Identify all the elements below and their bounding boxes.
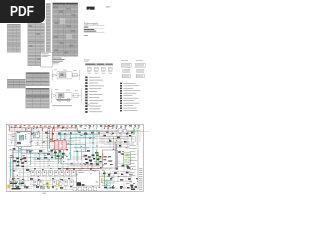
- subtitle: Mini Hydraulic Excavator: [84, 28, 95, 31]
- ground bus segments bottom left: [10, 183, 28, 190]
- dark cluster centre components: [51, 149, 65, 158]
- fuse panel white box bottom: [76, 171, 99, 186]
- title rule 3: [84, 31, 105, 33]
- grey trunk bus left: [12, 148, 13, 190]
- small box upper notes area: [131, 136, 135, 142]
- wiring code table (wide, dark header): [53, 3, 78, 57]
- small connector boxes under fuse panel: [73, 187, 97, 190]
- harness table H: [26, 88, 49, 109]
- CAT logo: [87, 7, 95, 10]
- dark cluster centre right: [84, 154, 95, 164]
- scanned parts table column B: [28, 23, 45, 66]
- connector table E: [7, 79, 25, 88]
- teal wires bottom right: [102, 179, 115, 190]
- green harness wires left: [48, 130, 52, 152]
- scattered wire number labels: [10, 131, 133, 189]
- connector block J2: [33, 132, 39, 137]
- right quadrant wiring details: [102, 130, 132, 149]
- dark cluster left column: [16, 157, 26, 167]
- ECU red edge: [102, 153, 104, 160]
- yellow connector bottom right: [101, 179, 103, 184]
- teal signal wires left: [11, 147, 24, 184]
- bottom right corner components: [130, 185, 137, 190]
- svg-text:Schematic: Schematic: [84, 21, 99, 25]
- magenta label bottom centre: [85, 173, 90, 176]
- red feed wire segment 2: [50, 128, 56, 141]
- relay box K1 with teal connector: [16, 132, 31, 147]
- dark cluster beside ECU: [96, 155, 101, 165]
- small relay boxes top right: [118, 129, 126, 133]
- teal bus upper centre: [58, 131, 100, 160]
- title rule 1: [84, 24, 105, 26]
- scattered small components: [12, 132, 138, 189]
- teal connector bottom left: [40, 186, 50, 189]
- red drop from pink block: [55, 150, 62, 159]
- side view callouts: [55, 89, 78, 90]
- legend rows (right column): [120, 83, 140, 112]
- stray mark right of caption: [87, 104, 90, 107]
- spec box text: [42, 54, 51, 57]
- fine print under wiring table: [53, 58, 65, 62]
- magenta mark left mid: [22, 155, 24, 156]
- wire mesh horizontal runs: [8, 130, 150, 191]
- machine plan view illustration: [52, 70, 80, 81]
- teal marks bottom right corner: [130, 181, 135, 184]
- machine side view illustration: [52, 88, 82, 103]
- green wires centre: [59, 149, 61, 164]
- pink connector block: [54, 141, 66, 150]
- plan view callouts: [54, 70, 77, 71]
- caption under side view: [52, 104, 72, 107]
- white spec box over tables: [41, 52, 53, 67]
- schematic frame: [6, 124, 143, 191]
- symbol chart row: [88, 67, 113, 70]
- connector chart labels: [121, 59, 143, 62]
- harness table G: [26, 72, 49, 86]
- teal cluster centre: [50, 149, 67, 158]
- wire over fuse area: [70, 164, 100, 166]
- connector chart drawings: [122, 63, 146, 78]
- magenta label centre: [84, 164, 86, 165]
- notes column text rows: [129, 145, 137, 176]
- sheet number below frame: [43, 192, 46, 195]
- PDF badge: [0, 0, 45, 23]
- notes column divider: [137, 130, 139, 190]
- bottom right component cluster: [103, 172, 129, 189]
- small comps right mid: [118, 151, 123, 155]
- harness bus right of ECU: [115, 142, 116, 170]
- teal wires centre right: [74, 148, 89, 160]
- media number: [84, 34, 88, 37]
- subtitle: Electrical System: [84, 30, 97, 33]
- red battery bus wire: [10, 128, 78, 133]
- right quadrant components: [103, 135, 131, 168]
- scanned parts table column C: [46, 3, 50, 52]
- red accessory wire across centre: [63, 165, 101, 172]
- legend note lines: [84, 60, 90, 62]
- title rule 2: [84, 27, 105, 29]
- ECU pin stubs: [104, 156, 113, 165]
- wire mesh vertical runs: [10, 126, 140, 192]
- magenta label top centre: [56, 145, 60, 148]
- teal wires upper left of centre: [60, 134, 65, 145]
- green wire bottom right: [104, 170, 106, 186]
- fuse/relay outlined boxes row: [10, 170, 76, 185]
- monitor green box: [124, 153, 131, 165]
- red wire right top: [105, 127, 113, 130]
- legend header: electrical schematic symbols: [85, 64, 113, 66]
- legend rows (left column): [85, 76, 104, 112]
- teal marks bottom left cluster: [15, 182, 21, 187]
- sheet reference text rows: [139, 169, 142, 191]
- magenta label left: [10, 150, 33, 158]
- teal wire across fuse panel top: [80, 172, 90, 174]
- component labels top band: [9, 125, 140, 129]
- ECU white box: [103, 150, 118, 168]
- teal loop centre left: [21, 150, 73, 165]
- red marks left: [26, 150, 28, 152]
- model text 307C: [84, 26, 89, 29]
- green stub top right: [133, 127, 135, 134]
- note above plan view: [53, 62, 60, 64]
- wire junction dots: [10, 133, 138, 187]
- yellow stub centre: [58, 183, 60, 187]
- yellow connector bottom left: [7, 182, 48, 189]
- doc number top right: [106, 6, 110, 8]
- scanned parts table column A: [7, 24, 20, 53]
- yellow wire right: [113, 136, 115, 150]
- green wires right: [77, 150, 98, 166]
